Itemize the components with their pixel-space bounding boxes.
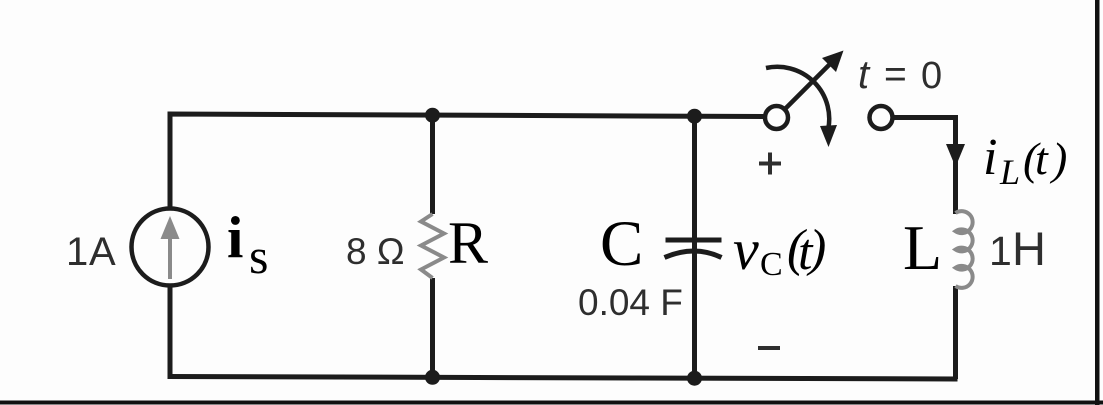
svg-text:0.04 F: 0.04 F	[578, 282, 683, 323]
svg-text:): )	[1049, 133, 1067, 184]
switch motion arc with arrowhead	[766, 67, 837, 147]
svg-text:s: s	[249, 228, 268, 284]
wire: capacitor branch vertical	[692, 116, 697, 378]
current source IS circle	[132, 209, 209, 286]
label t = 0	[858, 53, 942, 97]
switch blade arrow	[784, 51, 844, 111]
inductor L coil (gray loops)	[956, 211, 973, 288]
switch left terminal	[765, 106, 788, 129]
current source arrow (gray, pointing up)	[161, 216, 180, 279]
svg-text:=: =	[884, 53, 907, 96]
right border line	[1095, 0, 1100, 405]
node B: top of capacitor branch	[687, 109, 702, 124]
svg-text:L: L	[999, 152, 1020, 192]
label i_L(t)	[983, 129, 1067, 192]
svg-text:t: t	[1035, 133, 1049, 184]
inductor current arrow (down) on wire	[946, 144, 965, 167]
capacitor C bottom plate (curved)	[665, 251, 722, 258]
svg-text:R: R	[448, 210, 488, 276]
capacitor C top plate	[666, 238, 722, 243]
svg-text:i: i	[227, 204, 243, 270]
wire: top horizontal from left corner to switch left terminal	[170, 114, 766, 377]
label v_C(t)	[733, 217, 826, 283]
node D: bottom of capacitor branch	[687, 371, 702, 386]
svg-text:C: C	[760, 246, 783, 283]
svg-text:1: 1	[989, 228, 1012, 274]
svg-text:t: t	[858, 53, 871, 97]
wire: bottom horizontal	[168, 377, 958, 380]
bottom border line	[0, 401, 1103, 405]
plus sign	[759, 153, 781, 175]
resistor R zigzag	[421, 214, 444, 278]
svg-text:8 Ω: 8 Ω	[346, 231, 405, 272]
node C: bottom of resistor branch	[425, 370, 440, 385]
svg-text:1: 1	[66, 230, 88, 274]
svg-text:0: 0	[921, 55, 942, 97]
switch right terminal	[870, 106, 893, 129]
svg-text:v: v	[733, 217, 759, 282]
svg-text:i: i	[983, 129, 997, 186]
wire: inductor branch (from switch right terminal, corner, down)	[892, 118, 956, 215]
svg-text:C: C	[600, 208, 643, 280]
svg-text:): )	[806, 220, 826, 277]
node A: top of resistor branch	[425, 108, 440, 123]
svg-text:A: A	[89, 230, 116, 274]
minus sign	[758, 346, 780, 350]
svg-text:H: H	[1012, 222, 1046, 275]
wire: resistor branch vertical	[430, 115, 435, 214]
svg-text:L: L	[903, 212, 942, 283]
